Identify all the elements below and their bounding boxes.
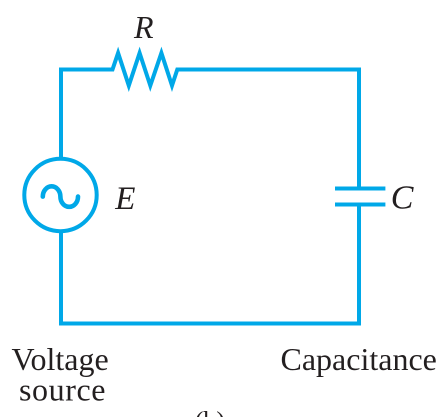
svg-text:source: source [19,372,106,408]
svg-text:C: C [391,179,414,216]
svg-text:Capacitance: Capacitance [281,341,437,377]
svg-text:R: R [133,9,154,45]
svg-text:E: E [114,181,135,217]
svg-text:(b): (b) [195,406,225,417]
